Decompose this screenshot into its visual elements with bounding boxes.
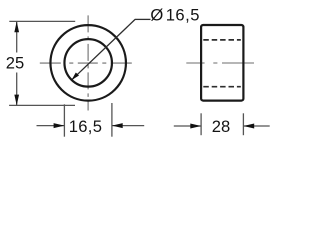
- svg-text:16,5: 16,5: [69, 117, 103, 136]
- dimension 16,5: left arrowhead pointing right: [54, 123, 65, 128]
- dimension 16,5: right dimension line tail: [112, 125, 144, 127]
- dimension 16,5: left extension line: [63, 104, 65, 136]
- dimension 28: left extension line: [200, 113, 202, 135]
- side view rectangle: [201, 25, 243, 101]
- dimension 28: right dimension line tail: [243, 125, 269, 127]
- dimension 25: dimension line upper segment: [16, 21, 18, 52]
- dimension 16,5: right extension line: [111, 103, 113, 137]
- vertical centerline of front view: [87, 15, 89, 110]
- dimension 25: top extension line: [9, 20, 75, 22]
- dimension 25: bottom extension line: [9, 104, 75, 106]
- horizontal centerline of side view: [186, 62, 254, 64]
- leader line diagonal for diameter 16,5: [72, 19, 135, 79]
- dimension 25: dimension line lower segment: [16, 73, 18, 106]
- dimension 25: bottom arrowhead: [14, 95, 19, 106]
- dimension 28: left dimension line tail: [174, 125, 201, 127]
- hidden line bottom (hole edge), side view: [203, 86, 241, 88]
- inner circle (hole), front view: [64, 39, 112, 87]
- svg-text:25: 25: [6, 54, 24, 73]
- leader arrowhead on inner circle: [72, 73, 80, 81]
- dimension 16,5: left dimension line tail: [37, 125, 65, 127]
- dimension 28: right extension line: [242, 113, 244, 135]
- svg-text:28: 28: [212, 117, 230, 136]
- leader line horizontal shoulder: [135, 18, 151, 20]
- dimension 28: right arrowhead pointing left: [243, 124, 254, 129]
- hidden line top (hole edge), side view: [203, 39, 241, 41]
- dimension 25: top arrowhead: [14, 21, 19, 32]
- dimension 28: left arrowhead pointing right: [190, 124, 201, 129]
- outer circle of washer, front view: [50, 25, 126, 101]
- horizontal centerline of front view: [40, 62, 138, 64]
- dimension 16,5: right arrowhead pointing left: [112, 123, 123, 128]
- svg-text:Ø16,5: Ø16,5: [150, 5, 200, 24]
